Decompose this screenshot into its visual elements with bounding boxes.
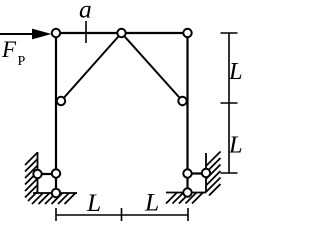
right ground xyxy=(166,193,206,204)
hinge right wall xyxy=(202,169,210,177)
dimension line bottom xyxy=(56,214,188,216)
wire right diagonal xyxy=(122,33,183,101)
hinge right ground xyxy=(183,188,191,196)
hinge left wall xyxy=(33,170,41,178)
dimension tick a xyxy=(85,21,87,43)
hinge left ground xyxy=(52,189,60,197)
hinge left column base xyxy=(52,169,60,177)
svg-text:L: L xyxy=(144,188,159,217)
svg-text:L: L xyxy=(228,58,242,85)
load arrow Fp xyxy=(0,33,35,35)
hinge apex xyxy=(117,29,125,37)
hinge left mid xyxy=(57,97,65,105)
svg-text:L: L xyxy=(228,132,242,159)
hinge right column base xyxy=(183,169,191,177)
left wall xyxy=(25,152,38,201)
right wall xyxy=(206,152,221,196)
wire right column xyxy=(186,33,188,193)
svg-text:a: a xyxy=(79,0,92,24)
svg-text:F: F xyxy=(1,37,17,62)
svg-text:L: L xyxy=(86,188,101,217)
left ground xyxy=(32,193,77,204)
svg-text:P: P xyxy=(18,54,26,69)
hinge top-left xyxy=(52,29,60,37)
wire right horizontal link xyxy=(188,172,207,174)
wire top chord xyxy=(56,32,188,34)
hinge right mid xyxy=(178,97,186,105)
wire left horizontal link xyxy=(38,173,57,175)
wire left diagonal xyxy=(61,33,122,101)
hinge top-right xyxy=(183,29,191,37)
dimension line right xyxy=(228,33,230,173)
wire left column xyxy=(55,33,57,193)
